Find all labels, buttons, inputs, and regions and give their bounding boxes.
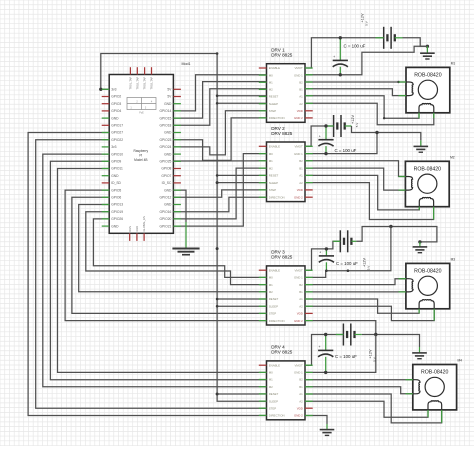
svg-text:SLEEP: SLEEP: [269, 181, 278, 185]
svg-text:GPIO5: GPIO5: [111, 188, 121, 192]
wire GPIO11 to DRV4 M0: [58, 169, 267, 373]
svg-text:VMOT: VMOT: [294, 66, 303, 70]
svg-text:PoE: PoE: [139, 112, 144, 115]
svg-text:RESET: RESET: [269, 95, 279, 99]
svg-text:GPIO24: GPIO24: [159, 145, 171, 149]
svg-text:Mod1: Mod1: [182, 62, 191, 66]
pin VDD (unconnected) of DRV 2: [305, 189, 313, 191]
svg-text:C = 100 uF: C = 100 uF: [335, 148, 357, 153]
svg-text:TR02_TAP: TR02_TAP: [150, 77, 154, 90]
svg-text:+: +: [333, 55, 335, 59]
battery V3 +12V: [339, 230, 341, 252]
svg-text:GPIO15: GPIO15: [159, 116, 171, 120]
M3 pin legs: [399, 278, 406, 280]
svg-text:ID_SC: ID_SC: [162, 181, 172, 185]
svg-text:GPIO26: GPIO26: [111, 217, 123, 221]
capacitor C3 lead top: [325, 249, 327, 256]
motor M4 rotor circle: [425, 377, 444, 396]
svg-text:M2: M2: [269, 385, 273, 389]
wire battery V4 minus to ground G4: [362, 335, 420, 348]
wire GPIO6 to DRV3 STEP: [72, 197, 267, 313]
raspberry pi inner connector table: [127, 98, 156, 110]
svg-text:3v3: 3v3: [111, 88, 116, 92]
svg-text:GND 1: GND 1: [294, 371, 303, 375]
DRV2 right pin legs: [305, 145, 313, 147]
svg-text:A1: A1: [299, 95, 303, 99]
wire GPIO22 to DRV4 STEP: [36, 140, 267, 409]
motor M3 left winding coil: [406, 279, 413, 292]
svg-text:GPIO8: GPIO8: [161, 167, 171, 171]
motor M2 rotor circle: [418, 174, 437, 193]
svg-text:M2: M2: [269, 166, 273, 170]
svg-text:B1: B1: [299, 166, 303, 170]
battery V4 legs: [336, 334, 344, 336]
ground G3 lead: [419, 242, 421, 247]
pin ENABLE (unconnected) of DRV 4: [259, 364, 267, 366]
wire GPIO26 to DRV3 M0: [93, 219, 266, 278]
svg-text:GPIO14: GPIO14: [159, 109, 171, 113]
svg-text:GPIO23: GPIO23: [159, 138, 171, 142]
svg-text:SLEEP: SLEEP: [269, 304, 278, 308]
wire GPIO27 to DRV4 DIRECTION: [28, 133, 266, 416]
pin VDD (unconnected) of DRV 3: [305, 312, 313, 314]
svg-text:B1: B1: [299, 385, 303, 389]
wire B2 DRV3 to M3 coil: [305, 279, 406, 285]
raspberry pi bottom pins RUN GND GLOBAL_EN: [129, 233, 131, 241]
svg-text:A2: A2: [299, 399, 303, 403]
motor M4 bottom winding coil: [428, 401, 442, 410]
svg-text:A2: A2: [299, 304, 303, 308]
svg-text:DRV 8825: DRV 8825: [271, 350, 293, 355]
svg-text:M1: M1: [269, 283, 273, 287]
svg-text:GND 2: GND 2: [294, 195, 303, 199]
svg-text:ENABLE: ENABLE: [269, 363, 280, 367]
wire B2 DRV4 to M4 coil: [305, 379, 413, 381]
svg-text:VMOT: VMOT: [294, 268, 303, 272]
svg-text:VDD: VDD: [297, 312, 303, 316]
pin VDD (unconnected) of DRV 1: [305, 110, 313, 112]
DRV4 right pin legs: [305, 364, 313, 366]
svg-text:Pi: Pi: [139, 154, 142, 158]
svg-text:ID_SD: ID_SD: [111, 181, 121, 185]
motor M2 bottom winding coil: [419, 197, 433, 206]
capacitor C1 lead bottom: [339, 67, 341, 75]
svg-text:GPIO22: GPIO22: [111, 138, 123, 142]
ground G1 lead: [426, 46, 428, 52]
wire GPIO23 to DRV1 DIRECTION: [173, 118, 266, 160]
wire GPIO15 to DRV1 M1: [173, 82, 266, 119]
svg-text:GPIO20: GPIO20: [159, 217, 171, 221]
svg-text:GPIO3: GPIO3: [111, 102, 121, 106]
svg-text:GPIO25: GPIO25: [159, 160, 171, 164]
motor M3 ROB-08420 box: [406, 263, 450, 308]
svg-text:RESET: RESET: [269, 174, 279, 178]
pin GND2 (unconnected) of DRV 2: [305, 196, 313, 198]
3v3 rail branch DRV3 RESET: [217, 298, 266, 300]
wire A1 DRV1 to M1 bottom coil: [305, 96, 419, 119]
svg-text:C = 100 uF: C = 100 uF: [335, 354, 357, 359]
svg-text:GPIO10: GPIO10: [111, 152, 123, 156]
wire B1 DRV4 to M4 coil: [305, 387, 413, 394]
svg-text:STEP: STEP: [269, 312, 277, 316]
3v3 rail branch DRV3 SLEEP: [217, 305, 266, 307]
svg-text:DRV 8825: DRV 8825: [271, 131, 293, 136]
motor M2 ROB-08420 box: [405, 161, 449, 206]
node rail bendpoint: [216, 247, 219, 250]
svg-text:RESET: RESET: [269, 392, 279, 396]
svg-text:5 V: 5 V: [355, 123, 359, 128]
svg-text:VDD: VDD: [297, 109, 303, 113]
ground G1: [420, 52, 435, 54]
wire VMOT riser DRV2 to +12V: [305, 126, 334, 146]
svg-text:VMOT: VMOT: [294, 363, 303, 367]
wire GPIO24 to DRV1 STEP: [173, 111, 266, 155]
svg-text:GPIO4: GPIO4: [111, 109, 121, 113]
svg-text:GND: GND: [111, 224, 119, 228]
pin ENABLE (unconnected) of DRV 1: [259, 67, 267, 69]
svg-text:DIRECTION: DIRECTION: [269, 116, 285, 120]
ground G3: [413, 246, 428, 248]
ground G6 below DRV4: [320, 429, 335, 431]
svg-text:TR01_TAP: TR01_TAP: [129, 77, 133, 90]
svg-text:GND 2: GND 2: [294, 414, 303, 418]
wire A1 DRV4 to M4 bottom coil: [305, 394, 442, 423]
op-amp U3 DRV 8825 driver module box: [267, 266, 306, 325]
wire A2 DRV4 to M4 bottom coil: [305, 401, 428, 417]
svg-text:B2: B2: [299, 283, 303, 287]
svg-text:A1: A1: [299, 174, 303, 178]
M1 pin legs: [399, 81, 407, 83]
svg-text:SLEEP: SLEEP: [269, 102, 278, 106]
raspberry pi pin legs: [102, 88, 110, 90]
svg-text:+12V: +12V: [351, 115, 355, 124]
battery V2 +12V: [333, 115, 335, 137]
svg-text:GND 1: GND 1: [294, 73, 303, 77]
svg-text:C = 100 uF: C = 100 uF: [336, 261, 358, 266]
svg-text:M2: M2: [450, 155, 455, 159]
wire battery V2 minus to ground G2: [352, 126, 421, 140]
wire VMOT riser DRV4 to +12V: [305, 335, 343, 366]
wire A1 DRV3 to M3 bottom coil: [305, 299, 419, 313]
svg-text:RESET: RESET: [269, 297, 279, 301]
svg-text:B1: B1: [299, 88, 303, 92]
wire GPIO5 to DRV3 DIRECTION: [65, 190, 266, 321]
3v3 rail branch DRV1 SLEEP: [217, 102, 266, 104]
svg-text:GND: GND: [164, 131, 172, 135]
svg-text:VDD: VDD: [297, 406, 303, 410]
wire GPIO13 to DRV3 M2: [79, 205, 267, 292]
svg-text:+: +: [319, 135, 321, 139]
svg-text:M1: M1: [269, 81, 273, 85]
svg-text:GND 2: GND 2: [294, 116, 303, 120]
svg-text:GPIO17: GPIO17: [111, 124, 123, 128]
svg-text:M4: M4: [458, 359, 463, 363]
wire battery V1 minus to ground: [403, 38, 428, 47]
capacitor C2 lead top: [325, 126, 327, 140]
wire DRV4 GND riser to battery minus: [305, 335, 376, 373]
svg-text:ROB-08420: ROB-08420: [414, 166, 442, 172]
capacitor C3 100uF: [319, 255, 334, 257]
svg-text:A2: A2: [299, 181, 303, 185]
battery V1 +12V: [383, 27, 385, 49]
battery V4 +12V: [342, 324, 344, 346]
svg-text:ROB-08420: ROB-08420: [414, 268, 442, 274]
capacitor C4 lead bottom: [325, 357, 327, 373]
svg-text:VDD: VDD: [297, 188, 303, 192]
wire GPIO18 to DRV1 M2: [173, 89, 266, 126]
svg-text:M2: M2: [269, 290, 273, 294]
motor M1 ROB-08420 box: [406, 67, 450, 112]
wire VMOT riser DRV1 to +12V rail: [305, 38, 384, 68]
wire GPIO20 to DRV2 M2: [173, 168, 266, 219]
svg-text:B2: B2: [299, 81, 303, 85]
svg-text:M0: M0: [269, 73, 273, 77]
svg-text:M1: M1: [451, 61, 456, 65]
svg-text:GND 1: GND 1: [294, 276, 303, 280]
motor M4 left winding coil: [413, 380, 420, 394]
svg-text:GPIO13: GPIO13: [111, 203, 123, 207]
wire GPIO19 to DRV3 M1: [86, 212, 267, 285]
raspberry pi module Mod1 box: [109, 75, 173, 234]
svg-text:GPIO2: GPIO2: [111, 95, 121, 99]
svg-text:GPIO21: GPIO21: [159, 224, 171, 228]
svg-text:B2: B2: [299, 159, 303, 163]
capacitor C3 lead bottom: [325, 262, 327, 270]
capacitor C4 100uF: [318, 349, 333, 351]
svg-text:5 V: 5 V: [365, 21, 369, 26]
svg-text:GPIO12: GPIO12: [159, 196, 171, 200]
svg-text:RUN: RUN: [128, 226, 132, 232]
svg-text:5 V: 5 V: [367, 266, 371, 271]
svg-text:ENABLE: ENABLE: [269, 268, 280, 272]
battery V1 legs: [376, 37, 384, 39]
wire VMOT riser DRV3 to +12V: [305, 241, 340, 270]
wire 3v3 rail from Pi over the top and down: [101, 54, 267, 402]
ground G2: [414, 145, 429, 147]
svg-text:M0: M0: [269, 371, 273, 375]
svg-text:M0: M0: [269, 276, 273, 280]
svg-text:GND: GND: [164, 188, 172, 192]
capacitor C1 lead top: [339, 38, 341, 61]
wire GPIO21 to DRV2 M0: [173, 154, 266, 227]
DRV1 right pin legs: [305, 67, 313, 69]
M2 pin legs: [399, 176, 406, 178]
pin ENABLE (unconnected) of DRV 2: [259, 145, 267, 147]
wire B2 DRV1 to M1 coil: [305, 81, 406, 83]
svg-text:+12V: +12V: [361, 13, 365, 22]
svg-text:M1: M1: [269, 378, 273, 382]
svg-text:GND: GND: [111, 174, 119, 178]
svg-text:STEP: STEP: [269, 109, 277, 113]
svg-text:DRV 8825: DRV 8825: [271, 255, 293, 260]
capacitor C1 100uF: [333, 59, 348, 61]
capacitor C4 lead top: [325, 335, 327, 351]
svg-text:+12V: +12V: [363, 258, 367, 267]
svg-text:ROB-08420: ROB-08420: [421, 370, 449, 376]
wire GPIO14 to DRV1 M0: [173, 75, 266, 111]
node C1/GND junction: [339, 73, 342, 76]
svg-text:M3: M3: [451, 257, 456, 261]
wire GPIO25 to DRV2 M1: [173, 160, 266, 162]
op-amp U2 DRV 8825 driver module box: [267, 142, 306, 202]
svg-text:DRV 8825: DRV 8825: [271, 53, 293, 58]
motor M2 left winding coil: [405, 177, 412, 191]
svg-text:STEP: STEP: [269, 406, 277, 410]
svg-text:3v3: 3v3: [111, 145, 116, 149]
wire GPIO12 to DRV2 STEP: [173, 190, 266, 197]
DRV3 right pin legs: [305, 269, 313, 271]
wire DRV4 GND2 to ground G6: [305, 416, 327, 425]
wire A2 DRV1 to M1 bottom coil: [305, 103, 434, 125]
svg-text:TR03_TAP: TR03_TAP: [143, 77, 147, 90]
svg-text:GPIO9: GPIO9: [111, 160, 121, 164]
motor M1 rotor circle: [418, 80, 437, 99]
svg-text:GND: GND: [164, 203, 172, 207]
wire GPIO10 to DRV4 M2: [43, 154, 267, 387]
svg-text:GND: GND: [135, 226, 139, 232]
svg-text:GPIO27: GPIO27: [111, 131, 123, 135]
wire A2 DRV3 to M3 bottom coil: [305, 306, 434, 320]
ground G5 below Pi: [172, 248, 199, 250]
svg-text:GND: GND: [164, 152, 172, 156]
wire GPIO9 to DRV4 M1: [50, 161, 266, 379]
wire A1 DRV2 to M2 bottom coil: [305, 175, 419, 210]
svg-text:B1: B1: [299, 290, 303, 294]
svg-text:SLEEP: SLEEP: [269, 399, 278, 403]
battery V2 legs: [325, 125, 333, 127]
svg-text:TR02_TAP: TR02_TAP: [135, 77, 139, 90]
op-amp U1 DRV 8825 driver module box: [267, 64, 306, 123]
svg-text:M1: M1: [269, 159, 273, 163]
wire battery V3 minus to ground G3 rail: [356, 227, 437, 242]
svg-text:GPIO18: GPIO18: [159, 124, 171, 128]
wire B1 DRV2 to M2 coil: [305, 168, 405, 190]
svg-text:A2: A2: [299, 102, 303, 106]
ground G4: [412, 352, 427, 354]
wire B1 DRV3 to M3 coil: [305, 291, 406, 293]
svg-text:VMOT: VMOT: [294, 145, 303, 149]
svg-text:GND: GND: [111, 116, 119, 120]
wire B1 DRV1 to M1 coil: [305, 89, 406, 96]
node battery1/ground junction: [426, 45, 429, 48]
wire A2 DRV2 to M2 bottom coil: [305, 183, 434, 220]
svg-text:STEP: STEP: [269, 188, 277, 192]
pin GND2 (unconnected) of DRV 1: [305, 117, 313, 119]
svg-text:GND 2: GND 2: [294, 319, 303, 323]
svg-text:DIRECTION: DIRECTION: [269, 414, 285, 418]
svg-text:M0: M0: [269, 152, 273, 156]
motor M3 rotor circle: [418, 276, 437, 295]
svg-text:ENABLE: ENABLE: [269, 66, 280, 70]
svg-text:GPIO16: GPIO16: [159, 210, 171, 214]
wire DRV1 GND to ground rail: [305, 46, 427, 75]
svg-text:GPIO11: GPIO11: [111, 167, 123, 171]
svg-text:+: +: [319, 251, 321, 255]
svg-text:B2: B2: [299, 378, 303, 382]
svg-text:DIRECTION: DIRECTION: [269, 319, 285, 323]
motor M1 bottom winding coil: [419, 104, 434, 113]
svg-text:ENABLE: ENABLE: [269, 145, 280, 149]
svg-text:GND: GND: [164, 102, 172, 106]
svg-text:Raspberry: Raspberry: [133, 149, 148, 153]
3v3 rail branch DRV1 RESET: [217, 95, 266, 97]
svg-text:A1: A1: [299, 392, 303, 396]
svg-text:+: +: [319, 345, 321, 349]
svg-text:GLOBAL_EN: GLOBAL_EN: [142, 216, 146, 232]
wire GPIO16 to DRV2 DIRECTION: [173, 197, 266, 212]
svg-text:GPIO7: GPIO7: [161, 174, 171, 178]
motor M3 bottom winding coil: [419, 300, 434, 309]
pin VDD (unconnected) of DRV 4: [305, 407, 313, 409]
wire DRV2 GND riser to ground rail: [305, 133, 377, 154]
battery V3 legs: [333, 240, 340, 242]
op-amp U4 DRV 8825 driver module box: [267, 361, 306, 420]
3v3 rail branch DRV2 SLEEP: [217, 182, 266, 184]
wire Pi GND to ground G5: [173, 190, 186, 222]
svg-text:GPIO6: GPIO6: [111, 196, 121, 200]
motor M4 ROB-08420 box: [413, 365, 457, 410]
DRV module pin legs: [259, 74, 267, 76]
3v3 rail branch DRV4 RESET: [217, 393, 266, 395]
wire B2 DRV2 to M2 coil: [305, 161, 405, 177]
svg-text:GPIO19: GPIO19: [111, 210, 123, 214]
M4 pin legs: [406, 379, 413, 381]
wire DRV3 GND riser to ground rail: [305, 227, 391, 278]
pin ENABLE (unconnected) of DRV 3: [259, 269, 267, 271]
raspberry pi top pins TR01-TR03 TAP: [129, 67, 131, 74]
svg-text:ROB-08420: ROB-08420: [414, 72, 442, 78]
capacitor C2 100uF: [318, 139, 333, 141]
svg-text:M2: M2: [269, 88, 273, 92]
svg-text:C = 100 uF: C = 100 uF: [344, 44, 366, 49]
svg-text:DIRECTION: DIRECTION: [269, 195, 285, 199]
3v3 rail branch DRV2 RESET: [217, 174, 266, 176]
wire DRV3 GND2 to battery4 minus net: [305, 321, 376, 335]
svg-text:+12V: +12V: [369, 349, 373, 358]
capacitor C2 lead bottom: [325, 146, 327, 154]
svg-text:A1: A1: [299, 297, 303, 301]
svg-text:GND 1: GND 1: [294, 152, 303, 156]
motor M1 left winding coil: [406, 82, 413, 96]
svg-text:Model 4B: Model 4B: [134, 158, 147, 162]
